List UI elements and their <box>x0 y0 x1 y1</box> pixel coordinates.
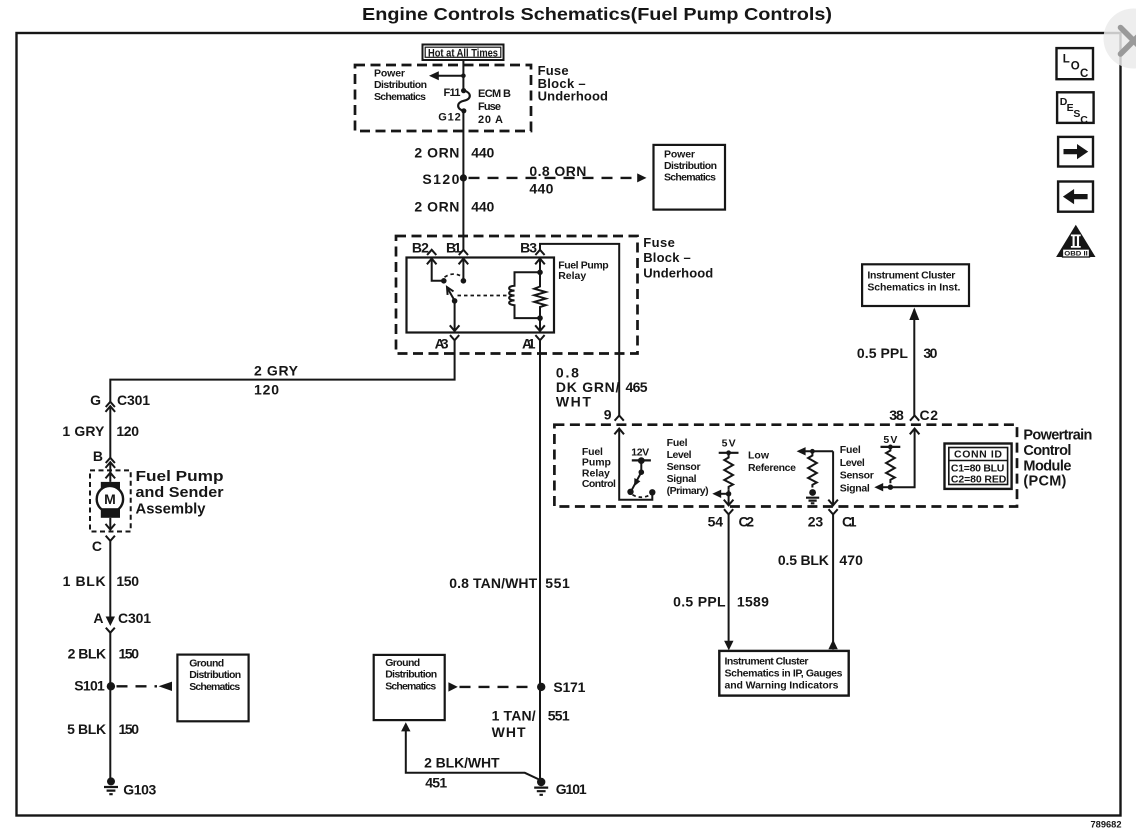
svg-text:Schematics: Schematics <box>385 680 436 692</box>
ground internal PCM <box>806 489 819 503</box>
resistor R signal pullup <box>886 447 895 483</box>
terminal B1 <box>446 240 468 265</box>
svg-text:Instrument Cluster: Instrument Cluster <box>725 655 809 667</box>
svg-text:440: 440 <box>471 145 494 161</box>
svg-text:C: C <box>92 538 102 554</box>
wire B1 internal to switch contact <box>462 259 464 281</box>
svg-text:5V: 5V <box>883 434 897 446</box>
node driver left contact <box>627 489 633 495</box>
svg-text:789682: 789682 <box>1091 820 1122 831</box>
node Ground Distribution Schematics box (left) <box>177 655 248 722</box>
svg-text:OBD II: OBD II <box>1064 251 1088 258</box>
terminal A1 <box>522 335 545 351</box>
relay coil loop with inductor <box>509 272 540 318</box>
driver 12V supply <box>631 447 651 464</box>
svg-text:Control: Control <box>1023 443 1071 459</box>
label 2 GRY 120 <box>254 363 299 398</box>
svg-text:0.8 ORN: 0.8 ORN <box>529 163 586 179</box>
pin G12 <box>438 108 466 123</box>
svg-text:Schematics: Schematics <box>664 172 716 184</box>
icon OBD II triangle <box>1056 225 1095 258</box>
svg-text:551: 551 <box>548 708 570 724</box>
svg-text:150: 150 <box>116 573 139 589</box>
svg-text:150: 150 <box>119 646 140 662</box>
arrow to (Primary) label <box>712 490 728 498</box>
connector pin 23 <box>808 509 857 529</box>
svg-text:Module: Module <box>1023 458 1071 474</box>
svg-text:2 GRY: 2 GRY <box>254 363 299 379</box>
wire 1 GRY <box>109 406 111 458</box>
dashed wire S101 to ground distribution box <box>117 682 173 691</box>
svg-text:551: 551 <box>545 575 570 591</box>
relay coil resistor <box>534 272 545 318</box>
label Fuel Pump Relay <box>558 259 609 282</box>
label 1 TAN/ WHT 551 <box>492 708 570 741</box>
svg-text:120: 120 <box>116 423 139 439</box>
svg-text:C: C <box>1080 68 1088 80</box>
resistor R primary pullup <box>724 453 733 490</box>
svg-text:Sensor: Sensor <box>840 470 874 482</box>
svg-text:54: 54 <box>708 514 724 530</box>
resistor R low reference <box>808 451 817 487</box>
node driver right contact <box>649 489 655 495</box>
label Powertrain Control Module (PCM) <box>1023 428 1092 490</box>
wire switch to A3 with arrow <box>450 301 460 331</box>
svg-text:12V: 12V <box>631 447 649 459</box>
pin F11 <box>444 87 467 99</box>
svg-text:440: 440 <box>529 181 553 197</box>
label 1 BLK 150 <box>63 573 140 589</box>
node coil top dot <box>537 270 543 276</box>
svg-text:C2=80 RED: C2=80 RED <box>951 473 1007 485</box>
svg-text:30: 30 <box>923 345 937 361</box>
terminal A3 <box>435 335 460 351</box>
svg-text:G101: G101 <box>556 781 587 797</box>
svg-text:Hot at All Times: Hot at All Times <box>428 47 498 59</box>
wire B3 internal to coil <box>539 259 541 273</box>
label 2 ORN 440 (upper) <box>414 145 494 161</box>
svg-text:Schematics: Schematics <box>374 91 426 103</box>
terminal B2 <box>412 240 437 265</box>
wire 1 BLK <box>109 541 111 617</box>
motor internal arrow top <box>106 473 116 482</box>
fuse F11/G12 ECM B 20A <box>458 91 470 111</box>
svg-text:Signal: Signal <box>667 473 697 485</box>
wire pin 23 internal with arrow <box>828 451 838 505</box>
motor M1 dashed box fuel pump assembly <box>90 470 131 531</box>
label Fuel Pump and Sender Assembly <box>136 469 224 517</box>
svg-text:Distribution: Distribution <box>189 669 241 681</box>
node primary signal dot <box>726 491 731 496</box>
svg-text:B2: B2 <box>412 240 429 256</box>
node Instrument Cluster Schematics in Inst box <box>862 264 969 306</box>
svg-text:Assembly: Assembly <box>136 501 206 517</box>
svg-text:Distribution: Distribution <box>664 160 717 172</box>
node B1 contact dot <box>461 278 467 284</box>
motor brush bottom <box>101 508 120 518</box>
svg-text:Relay: Relay <box>558 270 586 282</box>
label Fuse Block - Underhood (top) <box>538 63 608 103</box>
relay K box fuel pump relay <box>407 258 555 333</box>
PCM dashed box powertrain control module <box>554 425 1017 507</box>
svg-text:0.5 BLK: 0.5 BLK <box>778 552 829 568</box>
motor M circle <box>97 486 123 512</box>
svg-text:Schematics in Inst.: Schematics in Inst. <box>867 281 960 293</box>
svg-text:0.5 PPL: 0.5 PPL <box>673 594 726 610</box>
label 2 ORN 440 (lower) <box>414 199 494 215</box>
svg-text:1 BLK: 1 BLK <box>63 573 106 589</box>
svg-text:Fuse: Fuse <box>643 235 675 250</box>
fuse block underhood dashed box (top) <box>355 65 531 131</box>
svg-text:Control: Control <box>582 478 616 490</box>
dashed driver contact link <box>633 495 651 498</box>
label 0.8 TAN/WHT 551 <box>449 575 570 591</box>
terminal B3 <box>520 240 545 265</box>
node Instrument Cluster Schematics in IP box <box>719 651 848 696</box>
svg-text:F11: F11 <box>444 87 461 99</box>
svg-text:M: M <box>104 491 116 507</box>
terminal B fuel pump <box>93 448 115 468</box>
label Power Distribution Schematics (in fuse block) <box>374 68 427 104</box>
svg-text:Schematics: Schematics <box>189 681 240 693</box>
dashed contact arc <box>445 274 464 277</box>
svg-text:WHT: WHT <box>492 724 526 740</box>
svg-text:B3: B3 <box>520 240 537 256</box>
wire fuse output down to relay B1 <box>462 111 464 250</box>
svg-text:2 ORN: 2 ORN <box>414 199 459 215</box>
node Ground Distribution Schematics box (mid) <box>374 655 445 720</box>
svg-text:Ground: Ground <box>385 657 420 669</box>
node signal dot <box>888 485 893 490</box>
label 5 BLK 150 <box>67 721 139 737</box>
svg-text:O: O <box>1071 61 1080 73</box>
svg-text:Engine Controls Schematics(Fue: Engine Controls Schematics(Fuel Pump Con… <box>362 4 832 24</box>
svg-text:20 A: 20 A <box>478 114 503 126</box>
dashed link switch to coil <box>458 295 509 297</box>
svg-text:451: 451 <box>425 775 447 791</box>
svg-text:150: 150 <box>119 721 140 737</box>
svg-text:440: 440 <box>471 199 494 215</box>
svg-text:Underhood: Underhood <box>643 266 713 281</box>
icon LOC button <box>1057 48 1094 80</box>
icon back arrow button <box>1058 182 1093 212</box>
svg-text:A3: A3 <box>435 336 449 352</box>
wire 0.5 PPL 1589 down to cluster <box>673 514 769 650</box>
svg-text:Sensor: Sensor <box>667 461 701 473</box>
svg-text:9: 9 <box>604 407 612 423</box>
svg-text:Distribution: Distribution <box>385 669 437 681</box>
motor brush top <box>101 482 120 491</box>
node Power Distribution Schematics box (right) <box>654 145 726 210</box>
close button X top-right <box>1104 9 1136 69</box>
svg-text:Instrument Cluster: Instrument Cluster <box>867 270 955 282</box>
svg-text:C2: C2 <box>920 407 939 423</box>
svg-text:Distribution: Distribution <box>374 79 427 91</box>
svg-text:Block –: Block – <box>643 250 691 265</box>
svg-text:2 ORN: 2 ORN <box>414 145 459 161</box>
wire 2 BLK/WHT 451 from box to G101 <box>401 722 541 790</box>
wire arrow to Power Distribution Schematics <box>429 71 466 80</box>
label Low Reference <box>748 450 796 474</box>
svg-text:B: B <box>93 448 103 464</box>
svg-text:1589: 1589 <box>737 594 769 610</box>
svg-text:2 BLK/WHT: 2 BLK/WHT <box>424 755 500 771</box>
wire from Hot at All Times down to F11 <box>462 60 464 91</box>
connector pin 9 into PCM <box>614 416 624 435</box>
svg-text:0.5 PPL: 0.5 PPL <box>857 345 908 361</box>
svg-text:Fuse: Fuse <box>478 101 501 113</box>
svg-text:Reference: Reference <box>748 462 796 474</box>
svg-text:G12: G12 <box>438 112 461 124</box>
wire 0.5 BLK 470 down to cluster <box>778 514 863 649</box>
wire coil to A1 with arrow <box>535 318 545 331</box>
svg-text:120: 120 <box>254 382 279 398</box>
svg-text:CONN ID: CONN ID <box>954 449 1002 461</box>
svg-text:Low: Low <box>748 450 770 462</box>
ground G101 <box>534 778 587 797</box>
node coil bottom dot <box>537 315 543 321</box>
svg-text:C301: C301 <box>117 392 150 408</box>
svg-text:5V: 5V <box>722 438 736 450</box>
svg-text:5 BLK: 5 BLK <box>67 721 106 737</box>
svg-text:Schematics in IP, Gauges: Schematics in IP, Gauges <box>725 667 843 679</box>
svg-text:Fuel Pump: Fuel Pump <box>136 469 224 485</box>
svg-text:C2: C2 <box>739 514 755 530</box>
label 1 GRY 120 <box>62 423 139 439</box>
wire A1 down to G101 <box>540 340 541 780</box>
svg-text:23: 23 <box>808 514 824 530</box>
svg-text:Fuel: Fuel <box>667 437 688 449</box>
terminal C fuel pump <box>92 536 115 554</box>
ground G103 <box>104 777 157 797</box>
label Fuel Pump Relay Control <box>582 446 616 490</box>
wire 2 BLK <box>109 633 111 780</box>
svg-text:G103: G103 <box>123 782 156 798</box>
svg-text:and Warning Indicators: and Warning Indicators <box>725 679 839 691</box>
driver switch arm <box>631 461 644 492</box>
label Fuse Block - Underhood (relay) <box>643 235 713 281</box>
svg-text:Underhood: Underhood <box>538 89 608 104</box>
motor internal arrow bottom <box>106 518 116 530</box>
icon DESC button <box>1057 92 1094 126</box>
wire A3 down and left 2 GRY to C301 <box>110 340 454 402</box>
svg-text:WHT: WHT <box>556 394 591 410</box>
svg-text:1 GRY: 1 GRY <box>62 423 105 439</box>
svg-text:0.8 TAN/WHT: 0.8 TAN/WHT <box>449 575 537 591</box>
svg-text:2 BLK: 2 BLK <box>68 646 107 662</box>
svg-text:Fuel: Fuel <box>840 444 861 456</box>
label ECM B Fuse 20 A <box>478 88 511 126</box>
svg-text:Level: Level <box>667 449 692 461</box>
dashed wire 0.8 ORN 440 to power distribution <box>469 163 647 197</box>
svg-text:Power: Power <box>374 68 405 80</box>
svg-text:C1: C1 <box>842 514 857 530</box>
wire pin 54 internal with arrow <box>724 490 734 506</box>
wire signal to pin 38 with arrow <box>890 429 919 488</box>
CONN ID table <box>945 444 1012 489</box>
label Fuel Level Sensor Signal (Primary) <box>667 437 709 497</box>
sensor supply 5V (primary) <box>719 438 739 456</box>
label 2 BLK 150 <box>68 646 140 662</box>
svg-text:G: G <box>90 392 101 408</box>
svg-text:1 TAN/: 1 TAN/ <box>492 708 536 724</box>
node switch pivot dot <box>441 278 447 284</box>
wire B3 up right and down to PCM pin 9 <box>540 244 619 416</box>
connector C301 pin G <box>90 392 150 412</box>
icon forward arrow button <box>1058 137 1093 167</box>
wire 0.5 PPL 30 up to instrument cluster <box>857 308 938 416</box>
label Fuel Level Sensor Signal <box>840 444 874 494</box>
switch arm <box>447 287 457 304</box>
connector pin 38 <box>889 407 938 423</box>
fuse block underhood dashed box (relay) <box>396 236 638 354</box>
connector pin 54 <box>708 509 755 529</box>
svg-text:A1: A1 <box>522 336 536 352</box>
low reference arrow and node <box>797 447 834 455</box>
splice S120 <box>422 171 467 187</box>
svg-text:Level: Level <box>840 457 865 469</box>
sensor supply 5V (secondary) <box>881 434 901 449</box>
node Hot at All Times <box>423 45 504 61</box>
arrow to Signal label <box>874 483 890 491</box>
svg-text:C: C <box>1080 114 1088 126</box>
svg-text:(Primary): (Primary) <box>667 485 709 497</box>
svg-text:38: 38 <box>889 407 904 423</box>
svg-text:A: A <box>93 610 103 626</box>
svg-text:S101: S101 <box>74 678 105 694</box>
svg-text:ECM B: ECM B <box>478 88 511 100</box>
wire B into motor box <box>109 462 111 473</box>
splice S171 <box>537 679 586 695</box>
wire B2 internal to switch pivot <box>432 259 444 281</box>
connector C301 pin A <box>93 610 151 633</box>
dashed wire S171 to ground distribution <box>448 682 535 691</box>
svg-text:465: 465 <box>626 379 648 395</box>
svg-text:Signal: Signal <box>840 482 870 494</box>
svg-text:Power: Power <box>664 149 695 161</box>
svg-text:Ground: Ground <box>189 658 224 670</box>
svg-text:(PCM): (PCM) <box>1023 474 1066 490</box>
svg-text:S171: S171 <box>553 679 585 695</box>
splice S101 <box>74 678 115 694</box>
svg-text:and Sender: and Sender <box>136 485 224 501</box>
label 0.8 DK GRN/ WHT 465 <box>556 365 648 410</box>
svg-text:L: L <box>1063 54 1070 66</box>
wire pin 9 internal <box>619 429 652 500</box>
svg-text:470: 470 <box>839 552 863 568</box>
svg-text:C301: C301 <box>118 610 151 626</box>
svg-text:Powertrain: Powertrain <box>1023 428 1092 444</box>
